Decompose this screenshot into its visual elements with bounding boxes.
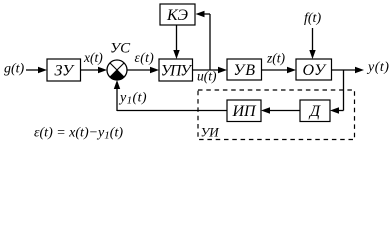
wire branch down to Д bbox=[330, 70, 344, 114]
block ОУ bbox=[296, 59, 332, 80]
svg-text:g(t): g(t) bbox=[4, 62, 25, 77]
block ЗУ bbox=[47, 59, 81, 81]
svg-text:f(t): f(t) bbox=[304, 11, 321, 26]
summing junction УС bbox=[107, 60, 127, 80]
svg-text:u(t): u(t) bbox=[197, 69, 217, 84]
wire f(t) arrow into ОУ bbox=[309, 28, 315, 59]
block КЭ bbox=[160, 4, 195, 25]
svg-text:КЭ: КЭ bbox=[166, 7, 188, 24]
svg-text:УПУ: УПУ bbox=[161, 63, 194, 80]
svg-text:x(t): x(t) bbox=[83, 50, 103, 65]
wire УВ to ОУ bbox=[262, 67, 297, 73]
svg-text:y(t): y(t) bbox=[366, 60, 389, 75]
block Д bbox=[300, 100, 330, 122]
block УВ bbox=[227, 59, 262, 80]
block ИП bbox=[227, 100, 261, 122]
wire УПУ to УВ bbox=[193, 67, 228, 73]
wire ЗУ to УС bbox=[81, 67, 108, 73]
svg-text:УВ: УВ bbox=[233, 62, 256, 79]
wire ОУ output y(t) bbox=[332, 67, 365, 73]
wire feedback branch up to КЭ bbox=[196, 11, 211, 70]
wire ИП to УС feedback bbox=[114, 80, 227, 111]
svg-text:УИ: УИ bbox=[201, 125, 220, 140]
svg-text:ε(t): ε(t) bbox=[135, 50, 155, 65]
svg-text:ИП: ИП bbox=[231, 103, 257, 120]
dashed box УИ bbox=[198, 90, 355, 140]
svg-text:УС: УС bbox=[110, 41, 131, 57]
svg-text:z(t): z(t) bbox=[266, 51, 286, 66]
wire Д to ИП bbox=[261, 107, 300, 113]
svg-text:ЗУ: ЗУ bbox=[54, 63, 75, 80]
svg-text:ОУ: ОУ bbox=[303, 62, 328, 79]
svg-text:y1(t): y1(t) bbox=[118, 91, 147, 107]
svg-text:Д: Д bbox=[308, 103, 321, 120]
svg-text:ε(t) = x(t)−y1(t): ε(t) = x(t)−y1(t) bbox=[34, 126, 123, 142]
wire g(t) input arrow bbox=[26, 67, 47, 73]
block УПУ bbox=[159, 59, 193, 81]
wire КЭ to УПУ arrow down bbox=[173, 25, 179, 59]
wire УС to УПУ bbox=[127, 67, 159, 73]
